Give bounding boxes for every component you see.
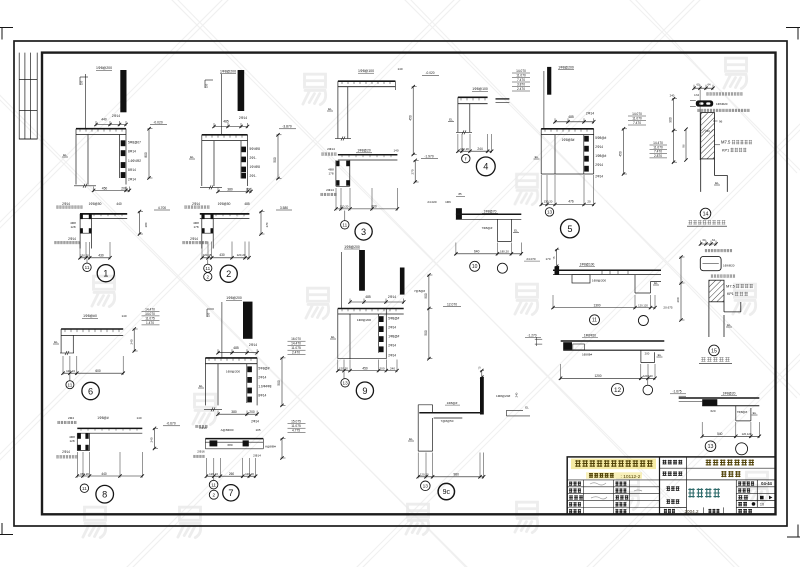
svg-text:24.020: 24.020 <box>427 200 437 204</box>
detail 9c top small dim <box>481 371 483 378</box>
detail 5 index circles <box>545 208 553 216</box>
svg-text:EL: EL <box>449 118 453 122</box>
detail 7 rebar squares <box>247 366 252 372</box>
right info table <box>736 480 775 514</box>
svg-text:500: 500 <box>277 380 281 386</box>
detail 1 lower slab <box>80 213 127 215</box>
project name label <box>663 471 683 476</box>
detail 7 lower right dim <box>281 439 283 458</box>
svg-text:440: 440 <box>101 472 107 476</box>
svg-text:8Φ14: 8Φ14 <box>258 394 266 398</box>
svg-text:5Φ8@07: 5Φ8@07 <box>128 141 141 145</box>
detail 9 wall-beam section <box>330 245 461 399</box>
detail 2 bottom dimension line <box>202 257 249 259</box>
svg-text:5Φ8@#: 5Φ8@# <box>595 136 606 140</box>
detail 4 small slab piece <box>496 98 510 100</box>
svg-text:EL: EL <box>409 437 413 441</box>
detail 10 slab left dark end <box>456 208 462 219</box>
detail 6 eave slab section <box>53 307 160 399</box>
corner trim mark top-right <box>786 28 800 40</box>
svg-text:1Φ8@#: 1Φ8@# <box>388 334 399 338</box>
detail 15 note line 2 <box>711 275 735 278</box>
detail 6 slab <box>61 328 123 330</box>
detail 12 slab top line <box>561 340 665 342</box>
detail 10 slab <box>456 213 521 215</box>
svg-text:8Φ14: 8Φ14 <box>128 168 136 172</box>
svg-text:12.070: 12.070 <box>447 303 457 307</box>
svg-text:800: 800 <box>144 152 148 158</box>
svg-text:1Φ8@200: 1Φ8@200 <box>558 65 574 69</box>
detail 8 index circles <box>80 484 88 492</box>
detail 1 index circles <box>86 260 88 264</box>
svg-text:120,20: 120,20 <box>340 205 349 209</box>
detail 4 main slab <box>458 96 488 98</box>
svg-text:-0.020: -0.020 <box>153 120 163 124</box>
detail 14 note line 1 <box>706 92 742 95</box>
svg-text:2Φ14: 2Φ14 <box>251 420 259 424</box>
detail 1 rebar squares <box>121 140 126 146</box>
svg-text:16.070: 16.070 <box>291 337 301 341</box>
detail 4 index circles <box>462 154 470 162</box>
svg-text:200: 200 <box>249 410 255 414</box>
svg-text:EL: EL <box>514 229 518 233</box>
detail 15 parapet coping detail <box>699 238 753 363</box>
svg-text:4: 4 <box>483 162 488 172</box>
detail 1 lower column <box>80 214 91 249</box>
svg-text:EL: EL <box>727 323 731 327</box>
detail 10 drop beam stem <box>498 219 512 241</box>
detail 8 bottom dims <box>77 475 142 477</box>
project name value <box>721 471 740 477</box>
signature scribbles <box>590 483 642 499</box>
svg-text:2Φ14: 2Φ14 <box>595 163 603 167</box>
detail 1 beam slab <box>76 128 126 130</box>
detail 15 hatched wall <box>709 280 724 302</box>
svg-text:A@8Φ00: A@8Φ00 <box>221 428 234 432</box>
svg-text:11: 11 <box>205 266 210 271</box>
detail 2 bottom dims of beam <box>218 191 251 193</box>
svg-text:2Φ14: 2Φ14 <box>327 147 335 151</box>
svg-text:1.470: 1.470 <box>146 321 154 325</box>
svg-text:120,20: 120,20 <box>339 366 348 370</box>
svg-text:2Φ14: 2Φ14 <box>68 237 76 241</box>
detail 14 note line 2 <box>697 109 749 112</box>
svg-text:150: 150 <box>79 80 83 85</box>
svg-text:120,120: 120,120 <box>643 374 653 378</box>
svg-text:: 10112-2: : 10112-2 <box>621 474 641 480</box>
detail 3 lower column <box>336 160 350 186</box>
svg-text:5Φ8@#: 5Φ8@# <box>388 316 399 320</box>
detail 3 bottom dimension line <box>336 208 397 210</box>
svg-text:1Φ4Φ8: 1Φ4Φ8 <box>250 165 261 169</box>
svg-text:11.075: 11.075 <box>291 346 301 350</box>
svg-text:1Φ8@20: 1Φ8@20 <box>723 391 736 395</box>
svg-text:1Φ8@100: 1Φ8@100 <box>358 69 374 73</box>
svg-text:485: 485 <box>365 295 371 299</box>
svg-text:4.64: 4.64 <box>694 93 700 97</box>
svg-text:2Φ14: 2Φ14 <box>326 188 334 192</box>
detail 9c index circles <box>421 481 431 491</box>
svg-text:485: 485 <box>223 120 229 124</box>
svg-text:1Φ8Φ20: 1Φ8Φ20 <box>584 333 596 337</box>
svg-text:2Φ16: 2Φ16 <box>197 450 205 454</box>
svg-text:120,16: 120,16 <box>209 472 218 476</box>
svg-text:13: 13 <box>423 484 429 490</box>
svg-text:130,20: 130,20 <box>80 253 89 257</box>
detail 9 beam box outline <box>338 309 387 359</box>
svg-text:1.6Φ4Φ2: 1.6Φ4Φ2 <box>128 159 141 163</box>
detail 6 right vertical dim <box>133 329 135 351</box>
detail 5 left face line <box>543 71 545 128</box>
detail 9 rebar squares <box>379 316 384 322</box>
detail 11 drop beam <box>572 275 590 283</box>
detail 8 column <box>77 433 89 450</box>
detail 3 middle slab <box>338 154 398 156</box>
detail 7 beam slab <box>205 357 257 359</box>
institute table labels <box>569 481 581 485</box>
svg-text:12: 12 <box>614 387 622 394</box>
svg-text:7@8@#: 7@8@# <box>414 289 425 293</box>
detail 12 long slab section <box>525 333 664 395</box>
detail 9 dims above beam <box>350 301 404 303</box>
detail 14 coping dark bar <box>696 100 713 106</box>
detail 5 dims above beam <box>555 121 594 123</box>
dimension line right lower <box>676 255 684 321</box>
svg-text:7@8@50: 7@8@50 <box>441 419 454 423</box>
svg-text:14: 14 <box>703 211 709 217</box>
detail 7 top wall dark bar <box>243 302 253 339</box>
svg-text:14.470: 14.470 <box>145 307 155 311</box>
svg-text:3.870: 3.870 <box>517 83 525 87</box>
detail 9c vertical dark bar <box>480 377 484 414</box>
detail 12 index circles <box>647 380 649 385</box>
svg-text:2Φ14: 2Φ14 <box>62 202 70 206</box>
detail 7 left face line <box>221 302 223 358</box>
svg-text:1Φ8@50: 1Φ8@50 <box>89 202 102 206</box>
detail 9c wall faces <box>418 414 432 452</box>
detail 14 wall below with footing <box>701 159 728 192</box>
svg-text:2Φ14: 2Φ14 <box>258 376 266 380</box>
svg-text:M7.5: M7.5 <box>726 284 736 289</box>
svg-text:120,120: 120,120 <box>638 303 648 307</box>
svg-text:640: 640 <box>474 250 480 254</box>
detail 7 mid dims <box>218 413 257 415</box>
svg-text:2Φ14: 2Φ14 <box>595 145 603 149</box>
svg-text:2Φ1.: 2Φ1. <box>250 174 257 178</box>
svg-text:85: 85 <box>458 192 462 196</box>
svg-text:430: 430 <box>98 253 104 257</box>
svg-text:-0.020: -0.020 <box>425 71 434 75</box>
detail 5 right vertical dim <box>623 129 625 174</box>
svg-text:10: 10 <box>760 503 764 507</box>
detail 2 right vertical dim <box>277 135 279 179</box>
svg-text:24.070: 24.070 <box>526 257 536 261</box>
svg-text:11.075: 11.075 <box>291 424 301 428</box>
svg-text:2: 2 <box>226 269 231 279</box>
detail 3 upper slab <box>338 80 396 82</box>
detail 1 beam box outline <box>76 129 126 185</box>
detail 9c slab lines <box>419 412 483 414</box>
svg-text:10: 10 <box>472 264 478 270</box>
detail 13 slab dark block <box>702 399 717 406</box>
svg-text:KP1: KP1 <box>727 292 734 296</box>
drawing title teal <box>688 488 719 497</box>
svg-text:240: 240 <box>705 129 710 133</box>
detail 9c parapet wall section <box>408 366 530 500</box>
detail 10 index circles <box>470 261 480 271</box>
detail 1 bottom dimension line <box>80 257 110 259</box>
licence number line <box>586 472 642 479</box>
svg-text:1Φ8@200: 1Φ8@200 <box>357 318 371 322</box>
svg-text:04-44: 04-44 <box>761 481 772 486</box>
svg-text:1Φ8@200: 1Φ8@200 <box>220 69 236 73</box>
svg-text:980: 980 <box>454 472 460 476</box>
svg-text:2Φ14: 2Φ14 <box>388 353 396 357</box>
detail 13 slab bottom line <box>702 405 759 407</box>
svg-text:240: 240 <box>390 366 395 370</box>
detail 2 lower column <box>202 214 213 249</box>
detail 14 top dims <box>694 87 713 89</box>
detail 1 right vertical dim <box>148 129 150 178</box>
svg-text:EL: EL <box>535 155 539 159</box>
svg-text:2: 2 <box>213 492 216 497</box>
svg-text:6: 6 <box>88 386 93 396</box>
svg-text:2Φ4: 2Φ4 <box>68 416 74 420</box>
svg-text:380: 380 <box>227 187 233 191</box>
detail 13 balcony slab section <box>670 390 761 455</box>
svg-text:3: 3 <box>361 227 366 237</box>
svg-text:140: 140 <box>393 149 398 153</box>
title block frame <box>567 457 775 514</box>
detail 13 slab top line <box>679 397 760 399</box>
svg-text:900: 900 <box>669 117 673 123</box>
svg-text:120,20: 120,20 <box>237 253 246 257</box>
svg-text:96: 96 <box>682 144 686 148</box>
detail 4 bottom dims <box>458 150 492 152</box>
detail 11 bottom dims <box>553 307 655 309</box>
left margin revision strip <box>19 53 37 139</box>
svg-text:13: 13 <box>343 380 349 385</box>
svg-text:5Φ4Φ8: 5Φ4Φ8 <box>250 147 261 151</box>
svg-text:680: 680 <box>227 443 232 447</box>
detail 11 right step <box>635 275 661 293</box>
project cells grid <box>660 457 776 514</box>
sheet number cells <box>738 481 754 485</box>
svg-text:1Φ8@200: 1Φ8@200 <box>344 245 360 249</box>
detail 5 beam box outline <box>541 129 594 174</box>
detail 5 beam slab <box>541 128 594 130</box>
svg-text:13: 13 <box>708 444 714 450</box>
detail 7 break line <box>204 408 222 410</box>
svg-text:200: 200 <box>645 351 650 355</box>
detail 7 right vertical dim <box>281 358 283 406</box>
svg-text:476: 476 <box>568 199 574 203</box>
svg-text:485: 485 <box>568 115 574 119</box>
svg-text:EL: EL <box>525 405 529 409</box>
detail 8 slab-column section <box>56 416 180 503</box>
svg-text:3.580: 3.580 <box>280 206 288 210</box>
svg-text:128: 128 <box>69 439 74 443</box>
svg-text:620: 620 <box>710 409 715 413</box>
detail 6 bottom dims <box>63 372 123 374</box>
detail 7 bottom dims <box>206 475 255 477</box>
svg-text:4.775: 4.775 <box>292 429 300 433</box>
detail 15 coping outline <box>700 256 721 270</box>
svg-text:1Φ8@200: 1Φ8@200 <box>226 370 240 374</box>
svg-text:1Φ6: 1Φ6 <box>445 200 451 204</box>
svg-text:9c: 9c <box>443 489 451 496</box>
svg-text:1Φ6Φ20: 1Φ6Φ20 <box>723 263 735 267</box>
svg-text:A@8Φ#: A@8Φ# <box>265 445 276 449</box>
detail 4 parapet corner section <box>448 69 530 176</box>
watermark yi glyphs <box>83 58 768 537</box>
detail 9 top wall dark bar <box>359 250 365 291</box>
svg-text:170: 170 <box>545 257 550 261</box>
detail 14 hatched wall <box>701 113 715 159</box>
svg-text:140: 140 <box>397 67 402 71</box>
svg-text:96: 96 <box>719 119 723 123</box>
svg-text:11: 11 <box>592 318 597 324</box>
svg-text:1Φ8@#: 1Φ8@# <box>595 154 606 158</box>
detail 9c parapet left box <box>418 405 432 414</box>
svg-text:150,20: 150,20 <box>80 472 89 476</box>
detail 11 left small dim <box>556 250 558 267</box>
detail 13 index circles <box>705 441 716 452</box>
detail 7 dims above beam <box>218 352 257 354</box>
detail 3 index circles <box>344 211 346 221</box>
svg-text:200: 200 <box>246 187 252 191</box>
detail 9c right step lines <box>506 410 530 416</box>
svg-text:500: 500 <box>273 157 277 163</box>
title block institute cell <box>659 457 661 514</box>
svg-text:178: 178 <box>328 172 333 176</box>
svg-text:1.6Φ4Φ8: 1.6Φ4Φ8 <box>258 385 271 389</box>
svg-text:440: 440 <box>101 118 107 122</box>
detail 10 bottom dims <box>456 253 521 255</box>
date row <box>664 509 675 513</box>
svg-text:120,24: 120,24 <box>66 369 75 373</box>
svg-text:EL: EL <box>654 281 658 285</box>
detail 2 rebar squares <box>241 147 246 153</box>
detail 15 caption parapet <box>701 357 730 362</box>
svg-text:1Φ8@5#: 1Φ8@5# <box>562 138 575 142</box>
detail 3 wall faces <box>338 81 348 138</box>
svg-text:440: 440 <box>116 202 122 206</box>
svg-text:11: 11 <box>68 382 73 387</box>
svg-text:200: 200 <box>379 366 384 370</box>
svg-text:EL: EL <box>753 411 757 415</box>
detail 2 index circles <box>207 260 209 265</box>
svg-text:7.470: 7.470 <box>633 121 641 125</box>
svg-text:1Φ8@20#: 1Φ8@20# <box>496 394 510 398</box>
svg-text:2Φ14: 2Φ14 <box>249 343 257 347</box>
detail 10 slab with drop beam <box>427 192 523 273</box>
svg-text:1Φ8@#: 1Φ8@# <box>447 401 458 405</box>
svg-text:240: 240 <box>670 94 675 98</box>
detail 12 bottom dims <box>561 377 656 379</box>
svg-text:9: 9 <box>362 386 367 396</box>
detail 6 index circles <box>69 375 71 381</box>
svg-text:2Φ14: 2Φ14 <box>388 295 396 299</box>
detail 7 wall-beam section <box>193 296 305 501</box>
svg-text:2Φ14: 2Φ14 <box>586 112 594 116</box>
detail 15 note line 1 <box>705 249 732 252</box>
svg-text:178: 178 <box>193 225 198 229</box>
svg-text:2.470: 2.470 <box>292 351 300 355</box>
svg-text:120,18: 120,18 <box>203 253 212 257</box>
svg-text:260: 260 <box>229 472 235 476</box>
svg-text:14.470: 14.470 <box>291 342 301 346</box>
svg-text:485: 485 <box>244 202 250 206</box>
svg-text:7Φ8@#: 7Φ8@# <box>737 410 748 414</box>
svg-text:130,20: 130,20 <box>460 147 469 151</box>
svg-text:20.675: 20.675 <box>663 306 673 310</box>
svg-text:11.070: 11.070 <box>632 117 642 121</box>
svg-text:4.700: 4.700 <box>158 206 166 210</box>
detail 2 wall-beam section <box>182 69 296 282</box>
svg-text:450: 450 <box>362 366 368 370</box>
detail 1 wall-beam section <box>54 66 170 282</box>
svg-text:900: 900 <box>424 293 428 299</box>
svg-text:2Φ14: 2Φ14 <box>388 343 396 347</box>
svg-text:7Φ8@#: 7Φ8@# <box>482 226 493 230</box>
detail 14 index circle <box>700 208 711 219</box>
svg-text:15.075: 15.075 <box>291 420 301 424</box>
svg-text:450: 450 <box>619 151 623 157</box>
svg-text:2Φ14: 2Φ14 <box>190 237 198 241</box>
approval labels <box>666 486 679 491</box>
project unit value highlighted <box>706 459 754 465</box>
svg-text:1Φ8@50: 1Φ8@50 <box>218 202 231 206</box>
detail 6 left wall drop <box>61 329 73 353</box>
svg-text:150: 150 <box>205 83 209 88</box>
svg-text:1Φ8@200: 1Φ8@200 <box>592 279 606 283</box>
detail 13 right step <box>736 406 751 421</box>
svg-text:2Φ14: 2Φ14 <box>253 454 261 458</box>
svg-text:64: 64 <box>708 82 711 86</box>
svg-text:128: 128 <box>70 225 75 229</box>
svg-text:450: 450 <box>408 115 412 121</box>
inner border <box>42 53 776 515</box>
svg-text:KP1: KP1 <box>722 148 729 152</box>
detail 4 wall faces <box>458 97 470 132</box>
svg-text:60: 60 <box>697 82 700 86</box>
svg-text:540: 540 <box>717 432 723 436</box>
svg-text:11.075: 11.075 <box>145 316 155 320</box>
svg-text:-1.270: -1.270 <box>527 333 536 337</box>
svg-text:2.870: 2.870 <box>654 154 662 158</box>
svg-text:450: 450 <box>102 186 108 190</box>
svg-text:EL: EL <box>658 353 662 357</box>
svg-text:EL: EL <box>331 335 335 339</box>
svg-text:120,120: 120,120 <box>742 432 752 436</box>
svg-text:14.070: 14.070 <box>145 312 155 316</box>
svg-text:2Φ14: 2Φ14 <box>112 114 120 118</box>
svg-text:500: 500 <box>424 330 428 336</box>
detail 11 slab left dark block <box>555 266 560 274</box>
detail 15 wall below <box>709 302 741 337</box>
svg-text:2Φ14: 2Φ14 <box>388 325 396 329</box>
svg-text:270: 270 <box>410 169 414 174</box>
svg-text:2: 2 <box>207 274 210 279</box>
detail 9 second dark bar <box>400 268 405 295</box>
detail 5 bottom dims <box>541 204 594 206</box>
svg-text:240: 240 <box>515 392 519 397</box>
svg-text:600: 600 <box>95 369 101 373</box>
svg-text:11: 11 <box>342 222 347 227</box>
detail 2 top wall dark bar <box>238 70 245 111</box>
svg-text:EL: EL <box>199 384 203 388</box>
